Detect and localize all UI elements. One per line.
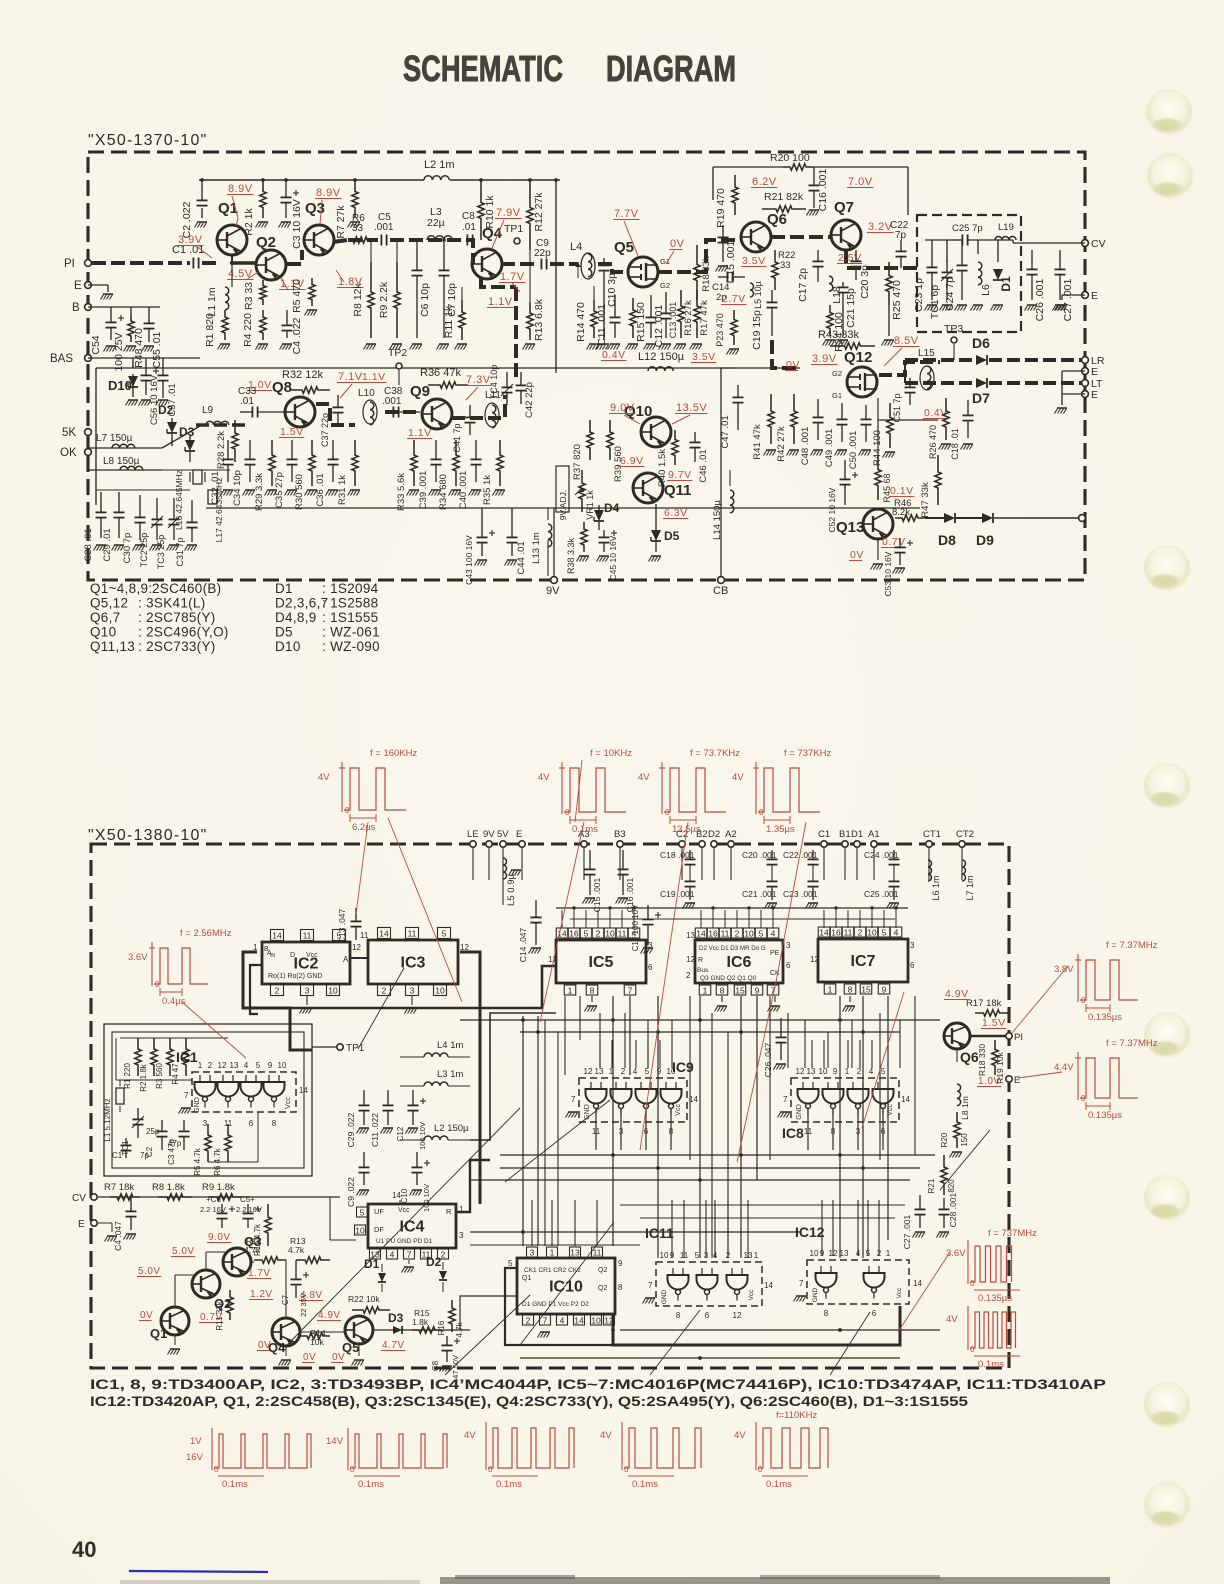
ground R25 (884, 339, 894, 341)
svg-text:0.1ms: 0.1ms (358, 1479, 384, 1490)
resistor R8 b (158, 1194, 192, 1200)
svg-text:A3: A3 (578, 829, 590, 840)
svg-text:L12 150µ: L12 150µ (638, 351, 685, 363)
svg-text:Vcc: Vcc (285, 1097, 292, 1109)
ground subbox (927, 304, 937, 306)
svg-text:PI: PI (1014, 1032, 1023, 1043)
red leader 10 (182, 1002, 246, 1058)
svg-text:Q2: Q2 (598, 1285, 607, 1292)
wire IC12 inputs up (821, 1200, 823, 1256)
svg-text:f = 737KHz: f = 737KHz (784, 748, 832, 759)
resistor R44 (887, 403, 893, 448)
test point TP1 (514, 238, 520, 244)
capacitor C14 (718, 276, 727, 278)
svg-text:DIAGRAM: DIAGRAM (606, 48, 736, 89)
svg-text:R14 470: R14 470 (575, 302, 587, 342)
svg-text:820: 820 (947, 1179, 956, 1193)
grounds Q12 row (766, 449, 776, 451)
scanner edge smudges (440, 1577, 1110, 1584)
resistor R34 (453, 440, 459, 486)
svg-text:10: 10 (278, 1061, 287, 1070)
svg-text:C49 .001: C49 .001 (824, 429, 835, 468)
wire 9V drop (553, 508, 555, 576)
svg-text:TC4 10p: TC4 10p (489, 365, 499, 400)
capacitor C44 (511, 508, 513, 537)
svg-text:11: 11 (408, 928, 417, 938)
wire horizontal h1032 (520, 1031, 900, 1033)
svg-text:L6: L6 (980, 284, 992, 296)
ground row left (96, 544, 106, 546)
svg-text:R7 27k: R7 27k (335, 205, 347, 239)
svg-text:5.0V: 5.0V (138, 1266, 161, 1277)
svg-text:G1: G1 (832, 391, 842, 400)
resistor R33 (411, 440, 417, 486)
inductor L18 (829, 276, 833, 291)
wire IC9 outputs (595, 1108, 597, 1150)
svg-text:1.7V: 1.7V (500, 271, 525, 283)
terminal D2 (711, 841, 717, 847)
svg-text:D: D (290, 952, 295, 959)
transistor Q12 FET (847, 367, 877, 397)
potentiometer VR1 (579, 470, 585, 512)
leader black 7 (830, 1312, 870, 1375)
svg-text:G1: G1 (660, 257, 670, 266)
svg-text:9: 9 (882, 984, 887, 994)
ground R14 (589, 343, 599, 345)
terminal PI b (1006, 1033, 1012, 1039)
ic IC4 pins bot (370, 1249, 381, 1259)
svg-text:D6: D6 (972, 335, 990, 351)
svg-text:6.3V: 6.3V (664, 507, 688, 519)
resistor R16 b2 (449, 1300, 455, 1332)
leader black 1 (358, 968, 404, 1049)
red leader 7 (1012, 966, 1068, 1033)
wire bus IC3 to IC4 bold (460, 952, 480, 1204)
red leader 6 (862, 992, 904, 1128)
svg-text:9.7V: 9.7V (668, 469, 692, 481)
svg-text:4.7k: 4.7k (244, 1245, 261, 1255)
resistor R1 (222, 310, 228, 340)
svg-text:2: 2 (596, 928, 601, 938)
red leader mid2 (575, 760, 582, 822)
svg-text:D2 Vcc D1 D3 MR Do G: D2 Vcc D1 D3 MR Do G (699, 945, 766, 952)
ic IC12 gates (816, 1273, 837, 1288)
svg-text:7: 7 (628, 985, 633, 995)
svg-text:C23 1p: C23 1p (913, 278, 925, 312)
svg-text:C2 .022: C2 .022 (181, 201, 193, 238)
svg-text:R41 47k: R41 47k (752, 424, 763, 460)
wire bus IC2 input bold (243, 952, 312, 1050)
diode D3 b (393, 1326, 402, 1334)
diode D9 (982, 513, 993, 523)
ic IC8 box (791, 1078, 899, 1122)
wire vertical trunk x700 (699, 996, 701, 1258)
ic IC6 pins (695, 928, 707, 938)
resistor R11 b2 (227, 1290, 233, 1320)
svg-text:C30 7p: C30 7p (122, 533, 133, 564)
ground R5 (307, 309, 317, 311)
svg-text:4.9V: 4.9V (945, 988, 969, 1000)
svg-text:C15 .001: C15 .001 (592, 877, 602, 912)
svg-text:Vcc: Vcc (675, 1104, 682, 1116)
svg-text:IC11: IC11 (645, 1225, 674, 1241)
diode D2 b (439, 1271, 447, 1280)
transistor Q10 (641, 417, 671, 447)
svg-text:C8: C8 (462, 211, 475, 222)
svg-text:L4 1m: L4 1m (437, 1040, 463, 1051)
svg-text:5: 5 (337, 930, 342, 940)
svg-text:C53 10 16V: C53 10 16V (883, 551, 893, 596)
transistor Q2 b (192, 1270, 220, 1298)
svg-text:C10 3p: C10 3p (606, 273, 618, 307)
resistor R9 (396, 240, 398, 262)
svg-text:.001: .001 (374, 222, 394, 233)
svg-text:4: 4 (633, 1067, 638, 1076)
leader black 3 (520, 1222, 614, 1345)
diode D7 (976, 378, 987, 388)
capacitor C24 C25 (893, 850, 895, 859)
svg-text:0: 0 (970, 1345, 975, 1354)
wire IC8 outputs (807, 1108, 809, 1150)
terminal C1 (821, 841, 827, 847)
svg-text:Q13: Q13 (836, 519, 864, 536)
svg-text:11: 11 (844, 927, 853, 937)
ground IC5 (591, 996, 593, 1002)
svg-text:33: 33 (352, 223, 364, 234)
capacitor C37 (337, 395, 339, 407)
svg-text:1: 1 (703, 985, 708, 995)
svg-text:LE: LE (467, 829, 479, 840)
svg-text:IC7: IC7 (851, 953, 876, 970)
svg-text:D8: D8 (938, 532, 956, 548)
svg-text:L14 150µ: L14 150µ (712, 500, 723, 540)
svg-text:3: 3 (786, 941, 791, 950)
svg-text:0V: 0V (786, 359, 800, 371)
svg-text:1.5V: 1.5V (982, 1017, 1006, 1029)
terminal E ground (88, 284, 108, 286)
ic IC7 pins bot (824, 984, 836, 994)
resistor R2 b (151, 1038, 157, 1076)
svg-text:8: 8 (618, 1283, 623, 1292)
svg-text:D7: D7 (972, 390, 990, 406)
ground C43 C44 (477, 559, 487, 561)
svg-text:11: 11 (721, 928, 730, 938)
ground C7 (439, 343, 449, 345)
svg-text:A: A (343, 955, 349, 964)
trimmer TC3 (173, 498, 175, 519)
svg-text:10: 10 (435, 985, 445, 995)
leader black 6 (650, 1310, 700, 1375)
svg-text:0.1ms: 0.1ms (766, 1479, 792, 1490)
ground C13m (661, 343, 671, 345)
ground IC2 (306, 996, 308, 1005)
svg-text:D2: D2 (426, 1255, 442, 1269)
inductor L6 bottom (928, 860, 932, 881)
test point TP1 b (337, 1044, 343, 1050)
wire Q4 base in (467, 240, 473, 264)
capacitor C18 (967, 400, 969, 415)
svg-text:R10 1k: R10 1k (484, 195, 496, 229)
ground IC4 (408, 1260, 410, 1264)
inductor L15 (927, 366, 931, 389)
capacitor C9 b (363, 1152, 365, 1167)
svg-text:9: 9 (755, 985, 760, 995)
inductor L19 (995, 237, 1016, 240)
resistor R26 (943, 398, 949, 440)
resistor R21 b (941, 1155, 947, 1195)
wire Q cluster (174, 1275, 176, 1307)
terminal B (85, 304, 92, 311)
svg-text:4: 4 (244, 1061, 249, 1070)
wire LR path (905, 358, 975, 362)
terminal CV b (91, 1194, 97, 1200)
svg-text:14: 14 (379, 928, 389, 938)
svg-text:6: 6 (705, 1311, 710, 1320)
wire signal to Q1 (202, 261, 218, 265)
svg-text:R8 1.8k: R8 1.8k (152, 1182, 185, 1193)
svg-text:0.1ms: 0.1ms (632, 1479, 658, 1490)
svg-text:TC1 6p: TC1 6p (929, 285, 941, 320)
inductor L5b (750, 283, 754, 297)
capacitor C27r (1059, 250, 1061, 269)
inductor L7 bottom (962, 860, 966, 881)
capacitor C8 (466, 235, 468, 246)
capacitor C13 (722, 225, 724, 237)
capacitor C41 (469, 405, 471, 417)
svg-text:14: 14 (392, 1191, 401, 1200)
svg-text:R7 18k: R7 18k (104, 1182, 134, 1193)
svg-text:1: 1 (886, 1249, 891, 1258)
svg-text:14: 14 (913, 1279, 922, 1288)
wire vertical trunk x888 (887, 996, 889, 1240)
svg-text:14: 14 (299, 1086, 308, 1095)
wire bus L2 to IC5 (470, 1013, 556, 1140)
wire Q7 out (846, 250, 880, 268)
transistor Q4 b (272, 1318, 300, 1346)
transistor Q8 (285, 397, 315, 427)
svg-text:8: 8 (824, 1309, 829, 1318)
svg-text:"X50-1370-10": "X50-1370-10" (88, 132, 207, 149)
svg-text:R8 12k: R8 12k (352, 283, 364, 317)
resistor R32 (290, 387, 330, 393)
ic IC5 (556, 940, 646, 983)
svg-text:13: 13 (840, 1249, 849, 1258)
svg-text:R: R (446, 1207, 452, 1216)
svg-text:9V: 9V (546, 585, 560, 597)
transistor Q3 (304, 225, 334, 255)
svg-text:14: 14 (819, 927, 829, 937)
inductor L7 (112, 444, 135, 448)
terminal 5V (500, 841, 506, 847)
resistor R22 (772, 250, 778, 290)
capacitor C6 (416, 240, 418, 270)
svg-text:C24 .001: C24 .001 (864, 850, 899, 860)
capacitor C13 b (355, 908, 357, 921)
ground C4 (282, 343, 292, 345)
resistor R7 (352, 181, 358, 218)
svg-text:4.7k: 4.7k (288, 1245, 305, 1255)
wire vertical trunk x658 (657, 996, 659, 1258)
svg-text:R: R (698, 957, 703, 964)
red leader 3 (640, 822, 688, 1150)
resistor R20 (783, 164, 813, 170)
ic IC1 gate box (192, 1072, 296, 1112)
capacitor C42 (520, 372, 522, 385)
svg-text:14: 14 (272, 930, 282, 940)
svg-text:0V: 0V (258, 1340, 271, 1351)
svg-text:DF: DF (374, 1225, 384, 1234)
svg-text:9.0V: 9.0V (208, 1232, 231, 1243)
svg-text:C5+: C5+ (240, 1195, 255, 1204)
terminal E (519, 841, 525, 847)
svg-text:IC3: IC3 (401, 955, 426, 972)
svg-text:12: 12 (218, 1061, 227, 1070)
svg-text:R20: R20 (940, 1132, 949, 1147)
bottom terminal 9V (551, 577, 558, 584)
svg-text:f = 10KHz: f = 10KHz (590, 748, 632, 759)
svg-text:2: 2 (526, 1315, 531, 1325)
svg-text:9: 9 (833, 1067, 838, 1076)
ground R20 b (952, 1151, 962, 1153)
svg-text:L19: L19 (998, 222, 1014, 233)
svg-text:IC12:TD3420AP, Q1, 2:2SC458(B): IC12:TD3420AP, Q1, 2:2SC458(B), Q3:2SC13… (90, 1394, 969, 1409)
svg-text:: 1S2588: : 1S2588 (322, 596, 378, 611)
terminal BAS (85, 355, 92, 362)
svg-text:L13 1m: L13 1m (531, 532, 542, 564)
svg-text:: 2SC785(Y): : 2SC785(Y) (138, 610, 216, 625)
resistor R47 (935, 455, 941, 505)
svg-text:E: E (1091, 290, 1098, 302)
wire vertical trunk x630 (629, 996, 631, 1075)
svg-text:C8: C8 (431, 1360, 440, 1371)
svg-text:4.4V: 4.4V (1054, 1062, 1074, 1073)
capacitor C24 (961, 252, 963, 265)
capacitor C29b (118, 492, 120, 512)
svg-text:D4: D4 (604, 501, 620, 515)
svg-text:C16 .001: C16 .001 (817, 169, 829, 212)
ground R7 (350, 221, 360, 223)
svg-text:C20 .001: C20 .001 (742, 850, 777, 860)
svg-text:L10: L10 (358, 388, 375, 399)
terminal LR (1082, 357, 1089, 364)
svg-text:0.1ms: 0.1ms (496, 1479, 522, 1490)
svg-text:R9 1.8k: R9 1.8k (202, 1182, 235, 1193)
wire bottom row (206, 507, 920, 509)
resistor R48 (128, 315, 134, 342)
ic IC6 (695, 940, 783, 983)
svg-text:22µ: 22µ (427, 217, 445, 229)
resistor R31 (352, 440, 358, 486)
svg-text:7.9V: 7.9V (496, 207, 521, 219)
capacitor C52 (844, 460, 846, 479)
trimmer TC2 (156, 498, 158, 519)
svg-text:E: E (1091, 366, 1098, 378)
leader black 5 (445, 1295, 530, 1375)
svg-text:R2 1.8k: R2 1.8k (139, 1063, 148, 1092)
capacitor C46 (694, 432, 696, 442)
diode D4 (594, 510, 604, 521)
svg-text:R4 47: R4 47 (171, 1063, 180, 1085)
svg-text:R19 10k: R19 10k (995, 1051, 1005, 1083)
wire Q8 to Q9 bold (316, 404, 355, 425)
capacitor C43 (481, 508, 483, 537)
svg-text:2: 2 (275, 985, 280, 995)
capacitor C26r (1031, 250, 1033, 269)
inductor L14 (730, 490, 734, 513)
ground Q7 area (838, 339, 848, 341)
svg-text:11: 11 (303, 930, 312, 940)
svg-text:0V: 0V (140, 1310, 153, 1321)
ic IC3 pins (378, 928, 391, 939)
ground E right (1057, 304, 1067, 306)
svg-text:: WZ-090: : WZ-090 (322, 639, 380, 654)
svg-text:CB: CB (713, 585, 728, 597)
svg-text:R5 4.7k: R5 4.7k (193, 1147, 202, 1176)
svg-text:: WZ-061: : WZ-061 (322, 625, 380, 640)
svg-text:Q10: Q10 (90, 625, 116, 640)
capacitor C5 b (247, 1204, 249, 1213)
svg-text:14: 14 (764, 1281, 773, 1290)
svg-text:Vcc: Vcc (748, 1289, 755, 1301)
svg-text:"X50-1380-10": "X50-1380-10" (88, 827, 207, 844)
svg-text:C13 .001: C13 .001 (668, 302, 678, 339)
svg-text:R3 33: R3 33 (243, 282, 255, 310)
svg-text:0V: 0V (332, 1352, 345, 1363)
svg-text:L2 1m: L2 1m (424, 159, 455, 171)
capacitor C28b (100, 492, 102, 512)
ground C54 (106, 345, 116, 347)
svg-text:2: 2 (735, 928, 740, 938)
svg-text:1: 1 (568, 985, 573, 995)
resistor R40 (672, 430, 678, 465)
svg-text:5V: 5V (497, 829, 509, 840)
svg-text:C23 .001: C23 .001 (783, 889, 818, 899)
svg-text:R3 560: R3 560 (155, 1063, 164, 1089)
svg-text:22 35V: 22 35V (299, 1293, 308, 1317)
ic IC9 box (579, 1078, 687, 1122)
svg-text:40: 40 (72, 1537, 96, 1562)
wire subbox bus (925, 239, 950, 241)
ground R23 (729, 348, 739, 350)
resistor R14 b2 (300, 1333, 330, 1339)
svg-text:R36 47k: R36 47k (420, 367, 461, 379)
resistor R7 b (110, 1194, 140, 1200)
trimmer TC4 (506, 372, 508, 387)
ic IC9 gates (586, 1089, 607, 1104)
svg-text:7p: 7p (895, 230, 907, 241)
svg-text:R19 470: R19 470 (715, 188, 727, 228)
svg-text:7: 7 (783, 1095, 788, 1104)
svg-text:4: 4 (560, 1315, 565, 1325)
svg-text:f=110KHz: f=110KHz (776, 1410, 818, 1421)
svg-text:E: E (516, 829, 522, 840)
svg-text:E: E (1014, 1075, 1020, 1086)
svg-text:5: 5 (695, 1251, 700, 1260)
ic IC4 (368, 1204, 456, 1248)
svg-text:13: 13 (230, 1061, 239, 1070)
capacitor C29 b (363, 1090, 365, 1105)
ic IC7 pins (818, 927, 830, 937)
svg-text:5: 5 (645, 1067, 650, 1076)
wire BAS row (88, 357, 200, 359)
adj label 9V.ADJ (556, 466, 569, 512)
svg-text:14: 14 (901, 1095, 910, 1104)
svg-text:3.9V: 3.9V (812, 353, 837, 365)
wire vertical trunk extra (564, 996, 566, 1075)
grounds Q9 row (409, 489, 419, 491)
capacitor C14 b (535, 900, 537, 917)
capacitor C10 (603, 258, 605, 265)
